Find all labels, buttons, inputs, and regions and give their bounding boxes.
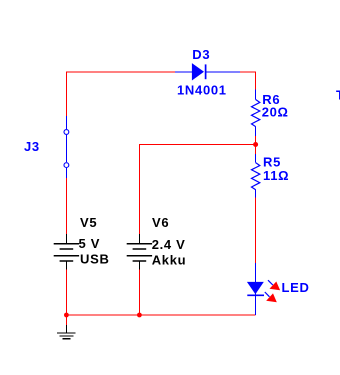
svg-text:V6: V6 [152,215,169,230]
svg-text:T: T [336,88,340,103]
svg-text:5 V: 5 V [79,236,101,251]
svg-text:20Ω: 20Ω [262,105,289,120]
svg-text:LED: LED [282,280,310,295]
svg-text:D3: D3 [192,47,210,62]
svg-text:1N4001: 1N4001 [177,83,227,98]
svg-text:USB: USB [80,252,110,267]
svg-text:2.4 V: 2.4 V [152,237,186,252]
svg-text:11Ω: 11Ω [263,168,289,183]
svg-text:V5: V5 [80,215,97,230]
svg-text:Akku: Akku [152,253,187,268]
svg-text:J3: J3 [24,139,40,154]
